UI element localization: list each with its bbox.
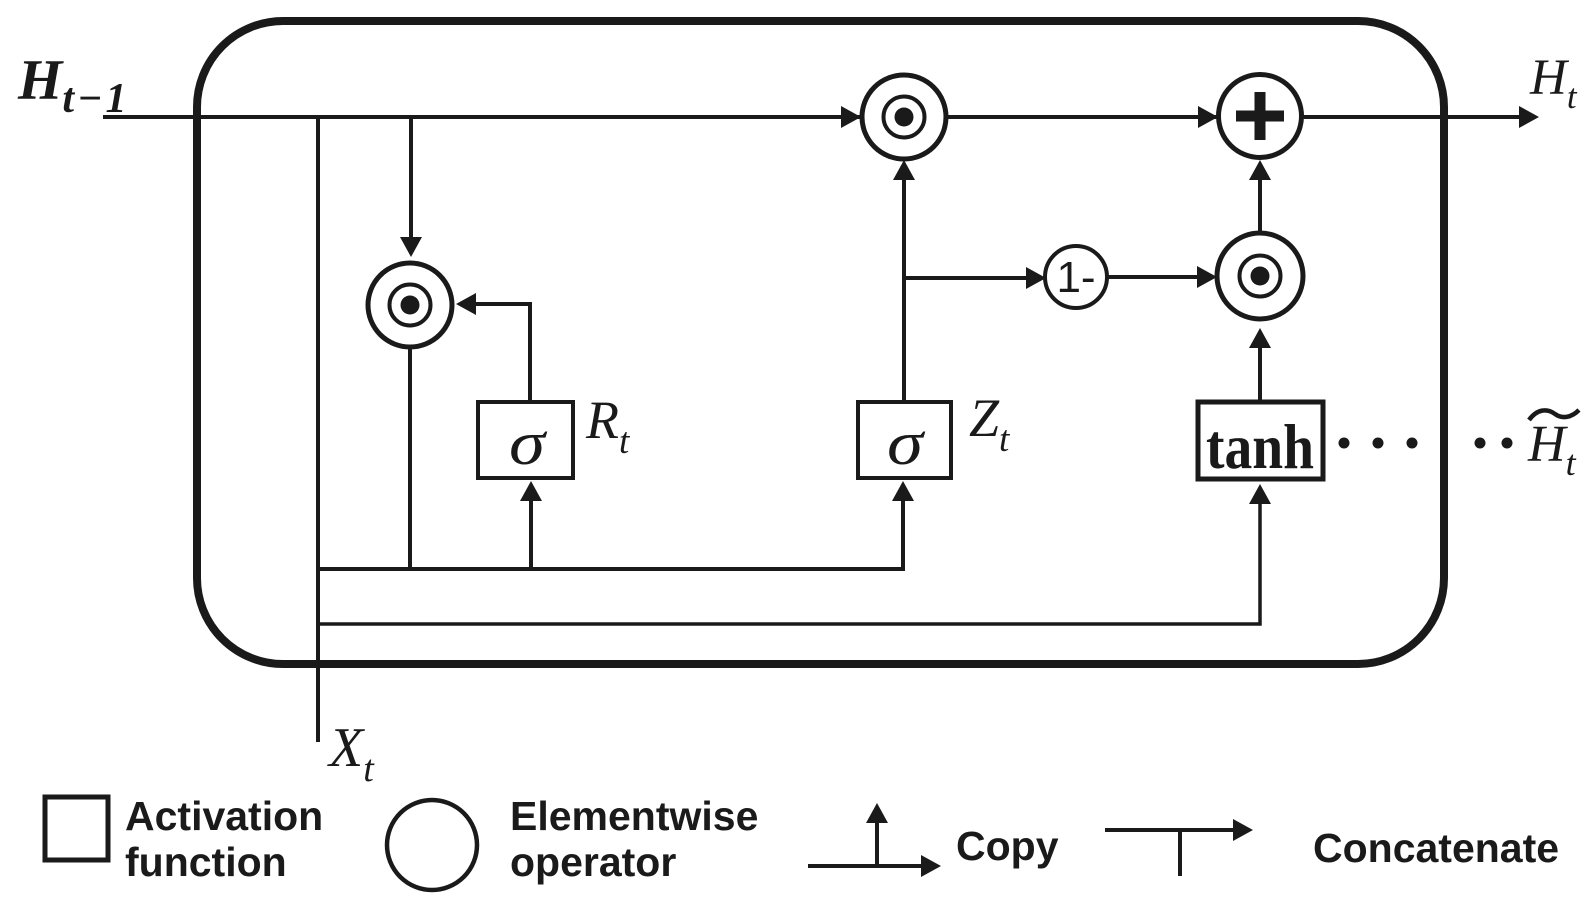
label H~(t) (1527, 410, 1579, 483)
elementwise operator (middle, on H line) (862, 75, 946, 159)
wire H(t-1) main horizontal line (103, 115, 1533, 119)
wire from left elementwise operator down (408, 347, 412, 570)
label X(t) (327, 717, 375, 790)
svg-text:σ: σ (887, 410, 926, 478)
tanh box (activation function) (1198, 402, 1323, 482)
wire tanh up to right elementwise operator (1249, 328, 1271, 402)
svg-text:σ: σ (509, 410, 548, 478)
svg-text:operator: operator (510, 839, 676, 885)
dotted link tanh to H~t (1339, 438, 1513, 449)
elementwise operator (right) (1217, 233, 1303, 319)
arrowhead output H(t) (1519, 106, 1539, 128)
svg-text:tanh: tanh (1206, 412, 1314, 482)
svg-text:Elementwise: Elementwise (510, 793, 758, 839)
sigma box R (activation function) (478, 402, 573, 478)
svg-text:Ht−1: Ht−1 (17, 49, 129, 122)
label H(t) (1529, 50, 1578, 116)
svg-text:Rt: Rt (585, 390, 631, 462)
wire from sigma R output to left elementwise operator (456, 293, 530, 402)
legend text Copy (956, 823, 1059, 869)
svg-text:Ht: Ht (1529, 50, 1578, 116)
GRU cell body rounded rectangle (197, 21, 1444, 664)
arrow up into sigma R (520, 481, 542, 569)
svg-text:Concatenate: Concatenate (1313, 825, 1559, 871)
svg-text:function: function (125, 839, 287, 885)
svg-text:Ht: Ht (1527, 416, 1577, 483)
svg-text:Zt: Zt (969, 388, 1011, 460)
plus operator circle (1219, 75, 1302, 158)
legend: activation function square (45, 797, 108, 860)
wire right elementwise up to plus (1249, 160, 1271, 233)
elementwise operator (left, reset gate product) (368, 263, 452, 347)
legend text Concatenate (1313, 825, 1559, 871)
sigma box Z (activation function) (858, 402, 951, 478)
wire copy drop to left elementwise operator (400, 117, 422, 257)
legend: elementwise operator circle (387, 800, 477, 890)
arrowhead into elementwise operator (middle) (841, 106, 861, 128)
legend text Activation function (125, 793, 323, 885)
wire concat line 2 (y=624) feeding tanh (318, 484, 1271, 624)
label H(t-1) (17, 49, 129, 122)
svg-text:Activation: Activation (125, 793, 323, 839)
svg-text:Xt: Xt (327, 717, 375, 790)
label R(t) (585, 390, 631, 462)
legend text Elementwise operator (510, 793, 758, 885)
label Z(t) (969, 388, 1011, 460)
wire concat line 1 (y=569) feeding sigma boxes (318, 481, 914, 569)
svg-text:Copy: Copy (956, 823, 1059, 869)
legend: concatenate symbol (1105, 819, 1253, 876)
arrowhead into plus operator (1198, 106, 1218, 128)
wire Z output up to middle elementwise operator (893, 160, 915, 402)
legend: copy symbol (808, 803, 941, 877)
wire X(t) vertical input line (316, 117, 320, 742)
svg-text:1-: 1- (1056, 253, 1095, 302)
operator 1- circle (1045, 246, 1107, 308)
wire from 1- to right elementwise operator (1107, 266, 1217, 288)
wire branch from Z line to 1- operator (904, 267, 1046, 289)
